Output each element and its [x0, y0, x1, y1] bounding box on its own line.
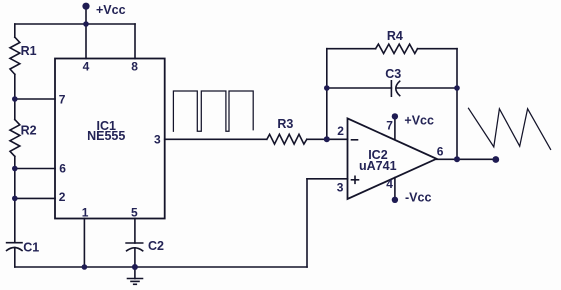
svg-text:C3: C3 [385, 67, 401, 81]
svg-text:5: 5 [131, 206, 138, 220]
svg-text:R4: R4 [387, 29, 403, 43]
svg-text:R2: R2 [21, 124, 37, 138]
svg-text:R3: R3 [277, 117, 293, 131]
svg-text:+Vcc: +Vcc [96, 3, 126, 17]
svg-text:uA741: uA741 [359, 159, 397, 173]
svg-text:7: 7 [386, 119, 393, 133]
svg-text:4: 4 [386, 177, 393, 191]
svg-text:R1: R1 [21, 44, 37, 58]
svg-text:2: 2 [337, 124, 344, 138]
svg-text:+Vcc: +Vcc [404, 114, 434, 128]
svg-text:-Vcc: -Vcc [405, 191, 431, 205]
svg-text:3: 3 [337, 181, 344, 195]
svg-text:NE555: NE555 [87, 129, 125, 143]
svg-text:C1: C1 [23, 241, 39, 255]
svg-text:6: 6 [437, 145, 444, 159]
svg-text:1: 1 [82, 206, 89, 220]
svg-text:3: 3 [154, 132, 161, 146]
svg-text:7: 7 [59, 93, 66, 107]
svg-text:6: 6 [59, 161, 66, 175]
svg-text:8: 8 [131, 59, 138, 73]
svg-text:4: 4 [83, 59, 90, 73]
svg-text:2: 2 [59, 190, 66, 204]
svg-text:C2: C2 [148, 239, 164, 253]
